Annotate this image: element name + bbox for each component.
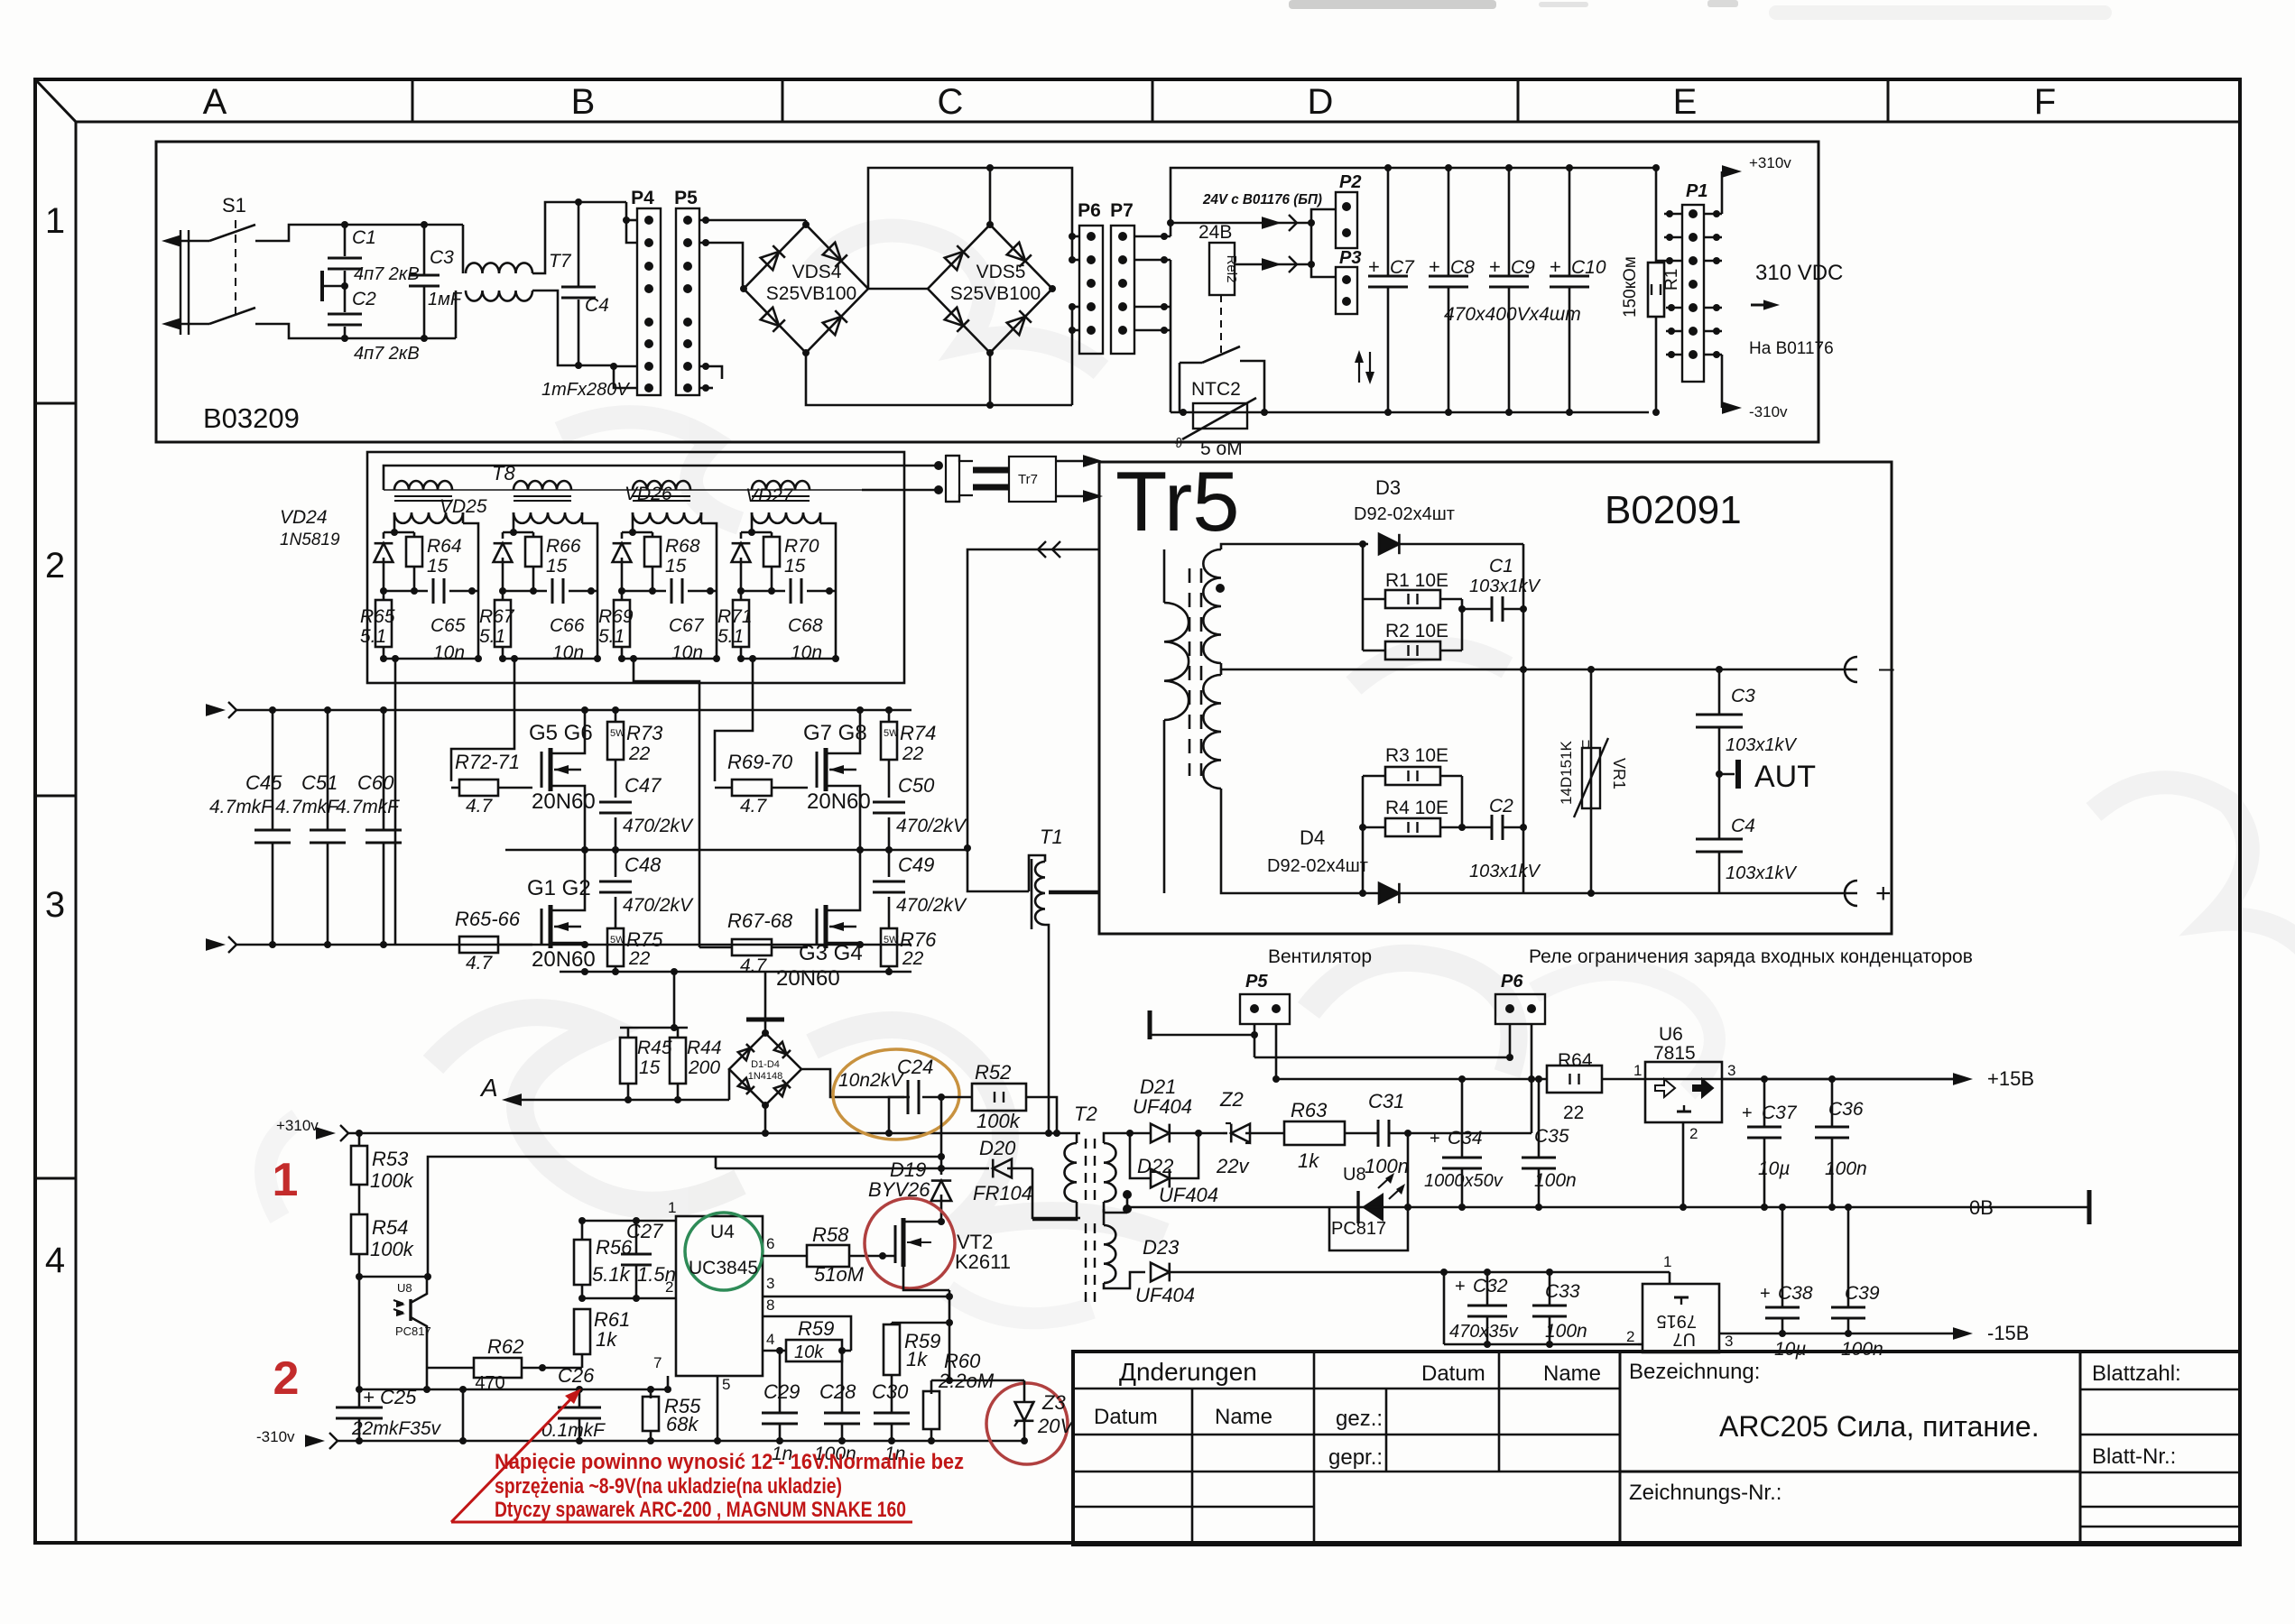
svg-text:B: B [571,82,596,122]
wire to Tr5 primary top [967,549,1099,848]
svg-text:100n: 100n [1365,1155,1409,1177]
resistor R75 22 5W [607,928,624,966]
svg-text:20N60: 20N60 [807,789,871,814]
optocoupler U8 PC817 LED [1407,1133,1410,1207]
capacitor C47 470/2kV [615,760,617,798]
channel VD27 [752,512,820,523]
0V rail [1127,1206,2089,1209]
svg-text:10n: 10n [791,642,822,663]
svg-text:Name: Name [1215,1405,1272,1429]
svg-text:P2: P2 [1339,172,1361,192]
svg-text:150кОм: 150кОм [1621,256,1640,318]
svg-text:7: 7 [653,1354,662,1371]
svg-text:PC817: PC817 [395,1324,431,1338]
resistor R74 22 5W [888,710,891,722]
capacitor C32 470x35v [1486,1272,1489,1305]
header column dividers [412,81,414,122]
svg-text:VDS4: VDS4 [792,262,842,282]
capacitor C4 103x1kV [1718,774,1721,839]
svg-text:R52: R52 [975,1061,1011,1084]
VT2 source sense wire [949,1290,951,1380]
svg-text:1: 1 [1633,1062,1642,1079]
svg-text:PC817: PC817 [1331,1219,1386,1239]
ground bar near P5 [1148,1010,1152,1039]
Tr5 secondary lower [1203,675,1221,789]
svg-text:R44: R44 [687,1038,722,1058]
svg-text:C7: C7 [1390,257,1415,278]
svg-text:Tr5: Tr5 [1115,454,1240,549]
diode VD27 [732,543,751,562]
resistor R65-66 4.7 [459,937,498,953]
svg-text:Napięcie powinno wynosić 12 -: Napięcie powinno wynosić 12 - 16V.Normal… [495,1450,964,1474]
resistor R44 200 [677,1028,680,1038]
svg-text:gez.:: gez.: [1336,1407,1383,1431]
svg-text:24В: 24В [1198,222,1232,243]
svg-text:S1: S1 [222,194,246,217]
+15 rail [1276,1078,1547,1081]
svg-text:F: F [2034,82,2056,122]
svg-text:5W: 5W [884,935,899,946]
svg-text:R68: R68 [665,536,700,557]
frame header band line [76,121,2240,124]
channel right side [700,512,703,523]
channel bottom wire [741,658,836,660]
channel VD24 [394,512,463,523]
svg-text:U6: U6 [1659,1024,1683,1045]
svg-text:4: 4 [45,1241,65,1280]
svg-text:51оМ: 51оМ [814,1263,865,1286]
resistor R54 100k [351,1214,367,1254]
svg-text:5: 5 [722,1376,730,1393]
svg-text:P3: P3 [1339,248,1361,268]
svg-text:BYV26: BYV26 [868,1178,930,1201]
svg-text:C31: C31 [1368,1090,1404,1112]
svg-text:2: 2 [45,546,65,586]
svg-text:P6: P6 [1078,200,1101,221]
svg-text:U7: U7 [1672,1329,1696,1349]
resistor R67-68 4.7 [732,939,772,955]
svg-text:VDS5: VDS5 [976,262,1026,282]
mid tap bar [320,271,324,301]
resistor R71 5.1 [733,600,749,647]
svg-text:470/2kV: 470/2kV [623,895,694,916]
svg-text:C48: C48 [625,854,662,876]
watermark blob 3 [265,970,1715,1318]
svg-text:R69: R69 [598,606,634,627]
svg-text:22v: 22v [1216,1155,1250,1177]
U4 pin2 wire [582,1297,676,1300]
svg-text:T7: T7 [549,251,572,272]
capacitor C35 100n [1538,1079,1541,1157]
wire C4 to P4 [578,201,626,204]
svg-text:gepr.:: gepr.: [1328,1445,1383,1470]
wire S1 to C1 [255,225,345,241]
svg-text:R45: R45 [637,1038,672,1058]
wire Rel2 to P3 row [1235,263,1311,266]
capacitor C45 [272,710,274,830]
svg-text:-15В: -15В [1987,1322,2029,1344]
svg-text:1N4148: 1N4148 [748,1071,783,1082]
svg-text:R67-68: R67-68 [727,909,793,932]
resistor R69-70 4.7 [732,780,772,796]
svg-text:100k: 100k [370,1169,414,1192]
wire C1 top to C3 [345,224,424,226]
svg-text:1000x50v: 1000x50v [1424,1171,1504,1191]
svg-text:100n: 100n [1545,1321,1587,1342]
svg-text:C60: C60 [357,771,394,794]
svg-text:+: + [1429,255,1440,278]
zener Z3 20V [986,1383,1068,1464]
svg-text:R70: R70 [784,536,819,557]
svg-text:Реле ограничения заряда входны: Реле ограничения заряда входных конденца… [1529,946,1973,967]
wires P1 left [1664,213,1682,216]
svg-text:103x1kV: 103x1kV [1469,862,1541,881]
resistor R59 1k vertical [891,1323,893,1324]
row wire C65 [384,590,428,593]
svg-text:Дnderungen: Дnderungen [1119,1358,1257,1386]
wire T7 to C4 node [532,202,578,273]
capacitor C39 100n [1847,1207,1850,1306]
svg-text:D92-02х4шт: D92-02х4шт [1354,504,1455,524]
svg-text:Tr7: Tr7 [1018,472,1038,487]
svg-text:VD25: VD25 [440,496,487,517]
svg-text:24V с В01176 (БП): 24V с В01176 (БП) [1202,192,1322,208]
wire Tr5 primary bottom [1049,892,1099,895]
svg-text:+: + [1368,255,1380,278]
svg-text:C51: C51 [301,771,338,794]
svg-text:R3 10E: R3 10E [1385,745,1448,766]
svg-text:D20: D20 [979,1137,1016,1159]
svg-text:1k: 1k [596,1328,617,1351]
svg-text:G7 G8: G7 G8 [803,721,867,745]
svg-text:C3: C3 [1731,686,1755,706]
svg-text:15: 15 [427,556,449,577]
mid rail [505,849,966,852]
resistor R63 1k [1284,1121,1345,1145]
gate drive drop wires [394,659,397,945]
svg-text:5.1: 5.1 [598,626,625,647]
svg-text:R64: R64 [1558,1050,1593,1071]
svg-text:Datum: Datum [1421,1361,1485,1386]
svg-text:R71: R71 [717,606,753,627]
bridge rectifier VDS5 [928,225,1052,353]
svg-text:200: 200 [688,1057,720,1078]
svg-text:C2: C2 [352,289,376,309]
svg-text:A: A [203,82,227,122]
svg-text:R63: R63 [1291,1099,1328,1121]
row wire C68 [741,590,785,593]
svg-text:310 VDC: 310 VDC [1755,261,1843,285]
resistor R56 5.1k [574,1240,590,1285]
svg-text:D1-D4: D1-D4 [751,1059,780,1070]
svg-text:Dtyczy spawarek ARC-200 , MAGN: Dtyczy spawarek ARC-200 , MAGNUM SNAKE 1… [495,1498,906,1522]
svg-text:U: U [1581,737,1590,752]
resistor R58 51oM [807,1245,849,1267]
svg-text:Р6: Р6 [1501,972,1523,992]
svg-text:15: 15 [546,556,568,577]
capacitor C38 10u [1781,1207,1784,1306]
svg-text:+310v: +310v [276,1117,319,1134]
capacitor C51 [327,710,329,830]
svg-text:Datum: Datum [1094,1405,1158,1429]
svg-text:R64: R64 [427,536,462,557]
svg-text:U8: U8 [397,1281,412,1295]
T2 secondary upper [1104,1143,1116,1202]
svg-text:100n: 100n [1534,1170,1577,1191]
wire right part top bus [1171,168,1656,236]
svg-text:R4 10E: R4 10E [1385,798,1448,818]
capacitor C60 [383,710,385,830]
svg-text:C67: C67 [669,615,705,636]
svg-text:100k: 100k [976,1110,1021,1132]
svg-text:0В: 0В [1969,1196,1994,1219]
svg-text:C27: C27 [626,1220,663,1242]
svg-text:20N60: 20N60 [532,789,596,814]
svg-text:68k: 68k [666,1413,699,1435]
wire C31 row to +15 rail [1408,1132,1532,1135]
channel right side [581,512,584,523]
capacitor C25 22mkF35v [358,1389,361,1408]
svg-text:+: + [1550,255,1561,278]
svg-text:20V: 20V [1037,1415,1075,1437]
svg-text:100k: 100k [370,1238,414,1260]
svg-text:VD27: VD27 [745,485,794,506]
channel right side [819,512,822,523]
svg-text:Blatt-Nr.:: Blatt-Nr.: [2092,1444,2176,1469]
svg-text:C32: C32 [1473,1276,1508,1296]
svg-text:C29: C29 [763,1380,800,1403]
svg-text:100n: 100n [1825,1158,1867,1179]
svg-text:+: + [1760,1284,1771,1304]
U6 ground pin wire [1682,1122,1685,1207]
svg-text:K2611: K2611 [955,1250,1011,1273]
svg-text:10n: 10n [433,642,465,663]
svg-text:C1: C1 [1489,556,1513,577]
bridge bottom to +310 rail [764,1105,767,1133]
svg-text:22: 22 [902,743,924,764]
svg-text:UF404: UF404 [1159,1184,1218,1206]
svg-text:5W: 5W [884,728,899,739]
svg-text:103x1kV: 103x1kV [1469,577,1541,596]
svg-text:6: 6 [766,1235,774,1252]
bridge D1-D4 1N4148 [728,1069,731,1100]
svg-text:R1 10E: R1 10E [1385,570,1448,591]
bottom bus of top box [1171,411,1649,414]
svg-text:+: + [1742,1103,1753,1123]
svg-text:C2: C2 [1489,796,1513,817]
svg-text:sprzężenia ~8-9V(na ukladzie(n: sprzężenia ~8-9V(na ukladzie(na ukladzie… [495,1474,842,1499]
svg-text:C8: C8 [1450,257,1475,278]
resistor R70 15 [763,537,780,567]
svg-text:14D151K: 14D151K [1558,740,1575,805]
svg-text:+: + [1489,255,1501,278]
svg-text:C66: C66 [550,615,585,636]
svg-text:20N60: 20N60 [776,966,840,991]
svg-text:C49: C49 [898,854,934,876]
MOSFET VT2 K2611 [865,1198,955,1288]
svg-text:C36: C36 [1828,1099,1864,1120]
watermark blob 2 [560,230,2295,965]
svg-text:1: 1 [668,1199,676,1216]
svg-text:4: 4 [766,1331,774,1348]
svg-text:C50: C50 [898,774,935,797]
svg-text:C33: C33 [1545,1281,1580,1302]
svg-text:UC3845: UC3845 [689,1258,758,1278]
svg-text:B03209: B03209 [203,402,300,434]
svg-text:100n: 100n [1841,1339,1883,1360]
svg-text:R59: R59 [798,1317,834,1340]
regulator U7 7915 [1643,1284,1719,1352]
wire S1 to C2 bottom [255,324,345,338]
wires P7 right to bus [1134,235,1171,238]
svg-text:D22: D22 [1137,1155,1173,1177]
AUT electrode [1719,773,1735,776]
svg-text:22: 22 [628,948,651,969]
svg-text:T1: T1 [1040,826,1063,848]
capacitor C49 470/2kV [888,850,891,877]
svg-text:Zeichnungs-Nr.:: Zeichnungs-Nr.: [1629,1481,1781,1505]
svg-text:C65: C65 [430,615,466,636]
svg-text:R1: R1 [1662,269,1681,291]
svg-text:U8: U8 [1343,1165,1366,1185]
svg-text:VR1: VR1 [1610,758,1628,789]
bridge top bar [764,1021,767,1033]
MOSFET G3 G4 [816,909,819,945]
svg-text:C68: C68 [788,615,823,636]
svg-text:Bezeichnung:: Bezeichnung: [1629,1360,1760,1384]
channel right side [462,512,465,523]
capacitor C50 470/2kV [888,760,891,798]
box T8 gate drive [367,452,904,683]
svg-text:R66: R66 [546,536,581,557]
svg-text:C4: C4 [1731,816,1755,836]
svg-text:15: 15 [639,1057,661,1078]
svg-text:–: – [1879,653,1894,683]
svg-text:Blattzahl:: Blattzahl: [2092,1361,2181,1386]
svg-text:1k: 1k [906,1348,928,1370]
capacitor C29 1n [779,1351,782,1412]
svg-text:22: 22 [1563,1103,1584,1123]
svg-text:R62: R62 [487,1335,523,1358]
svg-text:Р5: Р5 [1245,972,1268,992]
U4 pin1 wire [582,1220,676,1223]
svg-text:D92-02x4шт: D92-02x4шт [1267,856,1368,876]
svg-text:1k: 1k [1298,1149,1319,1172]
resistor R55 68k [650,1389,652,1398]
svg-text:R74: R74 [900,722,936,744]
svg-text:10n: 10n [552,642,584,663]
svg-text:D3: D3 [1375,476,1401,499]
svg-text:5W: 5W [610,935,625,946]
svg-text:S25VB100: S25VB100 [766,283,856,304]
svg-text:103x1kV: 103x1kV [1726,863,1797,883]
svg-text:4.7: 4.7 [466,796,494,817]
svg-text:4.7mkF: 4.7mkF [209,797,273,817]
svg-text:R65-66: R65-66 [455,908,521,930]
svg-text:C37: C37 [1762,1103,1798,1123]
resistor R1 150kOm [1655,168,1658,263]
channel bottom wire [622,658,717,660]
P5 P6 wires [1254,1057,1510,1059]
capacitor C48 470/2kV [615,850,617,877]
svg-text:S25VB100: S25VB100 [950,283,1041,304]
svg-text:ARC205 Сила, питание.: ARC205 Сила, питание. [1719,1410,2040,1443]
svg-text:4.7mkF: 4.7mkF [336,797,400,817]
svg-text:Rel2: Rel2 [1224,255,1239,283]
svg-text:15: 15 [784,556,806,577]
svg-text:Z2: Z2 [1219,1088,1244,1111]
svg-text:8: 8 [766,1296,774,1314]
svg-text:2: 2 [665,1278,673,1296]
svg-text:P5: P5 [674,188,698,208]
wires VDS4/VDS5 interconnect [868,168,1072,289]
svg-text:7815: 7815 [1653,1043,1696,1064]
svg-text:22mkF35v: 22mkF35v [351,1418,442,1439]
svg-text:FR104: FR104 [973,1182,1032,1204]
svg-text:10n2kV: 10n2kV [838,1070,904,1091]
svg-text:R54: R54 [372,1216,408,1239]
wire 24V row with chevrons [1171,222,1311,225]
channel bottom wire [503,658,597,660]
svg-text:5.1: 5.1 [479,626,505,647]
svg-text:22: 22 [902,948,924,969]
svg-text:C30: C30 [872,1380,909,1403]
row wire C66 [503,590,547,593]
svg-text:470/2kV: 470/2kV [623,816,694,836]
svg-text:10k: 10k [794,1343,824,1362]
resistor R66 15 [525,537,541,567]
svg-text:P4: P4 [631,188,654,208]
capacitor C4 [578,202,580,286]
resistor R53 100k [358,1133,361,1146]
svg-text:1: 1 [45,201,65,241]
box B03209 input filter board [156,142,1818,442]
red underline [451,1521,912,1524]
svg-text:5W: 5W [610,728,625,739]
row wire C67 [622,590,666,593]
capacitor C3 103x1kV [1718,669,1721,715]
wire pin7 row [359,1389,668,1391]
svg-text:1N5819: 1N5819 [280,531,340,549]
svg-text:10n: 10n [671,642,703,663]
svg-text:C39: C39 [1845,1283,1880,1304]
diode VD24 1N5819 [375,543,393,562]
svg-text:R72-71: R72-71 [455,751,520,773]
resistor R65 5.1 [375,600,392,647]
svg-text:D23: D23 [1143,1236,1180,1259]
svg-text:10µ: 10µ [1758,1158,1790,1179]
svg-text:P1: P1 [1686,181,1707,201]
capacitor C28 100n [841,1351,844,1412]
feedback wire upper [357,1157,941,1277]
svg-text:3: 3 [1727,1062,1735,1079]
box Tr5 B02091 output board [1099,462,1892,934]
svg-text:470x35v: 470x35v [1449,1322,1519,1342]
title block [1073,1352,2240,1545]
left rail arrows [206,704,226,716]
wire to U7 pin2 [1444,1343,1638,1346]
svg-text:UF404: UF404 [1135,1284,1195,1306]
resistor R68 15 [644,537,661,567]
svg-text:T2: T2 [1074,1103,1097,1125]
svg-text:1мF: 1мF [428,290,463,309]
capacitors C7 C8 C9 C10 [1387,168,1390,275]
inductor T7 [424,224,463,226]
svg-text:C47: C47 [625,774,662,797]
bridge rectifier VDS4 [744,225,868,353]
svg-text:C10: C10 [1571,257,1606,278]
wires P1 right and +310v -310v [1704,213,1722,216]
